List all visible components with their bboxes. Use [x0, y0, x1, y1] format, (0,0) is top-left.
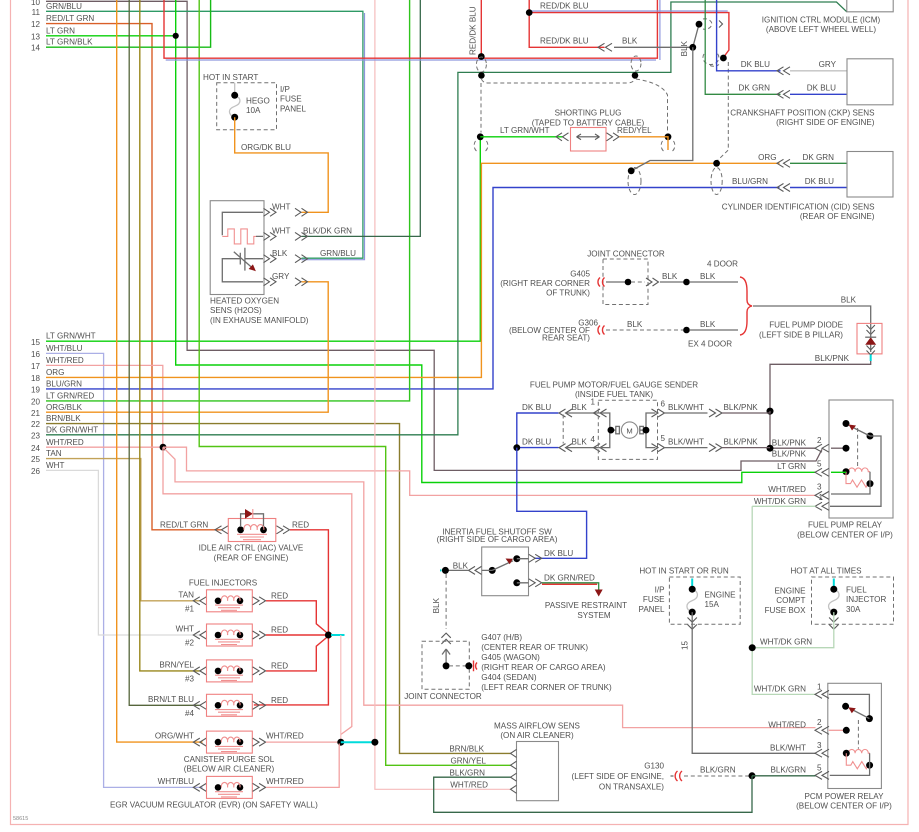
wire DK BLU sender row4 [517, 447, 559, 449]
svg-text:GRN/BLU: GRN/BLU [320, 249, 356, 258]
svg-text:BLK: BLK [453, 561, 469, 570]
svg-text:COMPT: COMPT [776, 596, 805, 605]
connector arrows CID row1 [777, 159, 790, 167]
svg-text:(LEFT SIDE OF ENGINE,: (LEFT SIDE OF ENGINE, [572, 772, 665, 781]
shorting plug internal jumper arrow [577, 134, 600, 140]
fuel pump relay internal arm to pin1 [830, 436, 881, 506]
svg-text:DK BLU: DK BLU [805, 177, 834, 186]
svg-text:WHT/RED: WHT/RED [46, 356, 84, 365]
wire ORG/WHT from top to canister purge solenoid [117, 0, 203, 742]
svg-text:14: 14 [31, 44, 41, 53]
joint connector internal arrow [442, 649, 450, 666]
svg-text:GRY: GRY [819, 60, 837, 69]
wire BLK from brace to fuel pump diode [753, 306, 871, 324]
svg-text:ON TRANSAXLE): ON TRANSAXLE) [599, 782, 664, 791]
wire WHT/RED EGR up to canister node [266, 744, 339, 788]
wire ORG/DK BLU from fuse to HEGO pin1 [235, 117, 329, 212]
svg-text:WHT/RED: WHT/RED [768, 485, 806, 494]
fuse ENGINE exit arrows [688, 618, 697, 630]
EGR vacuum regulator box [207, 776, 253, 798]
wire RED/DK BLU U-shaped run (red) [164, 0, 657, 58]
EGR coil [215, 784, 222, 791]
wire RED/DK BLU blue vertical of pair [659, 0, 661, 60]
injector 1 coil [215, 598, 222, 605]
svg-text:ORG: ORG [46, 368, 64, 377]
svg-text:3: 3 [817, 483, 822, 492]
EGR arrows right [253, 783, 266, 791]
svg-text:15: 15 [31, 338, 41, 347]
svg-text:PCM POWER RELAY: PCM POWER RELAY [804, 792, 884, 801]
svg-text:PASSIVE RESTRAINT: PASSIVE RESTRAINT [545, 601, 627, 610]
svg-text:WHT/DK GRN: WHT/DK GRN [754, 685, 806, 694]
wire GRY into CKP sensor [790, 70, 847, 72]
svg-text:RED/LT GRN: RED/LT GRN [160, 520, 208, 529]
svg-text:FUEL INJECTORS: FUEL INJECTORS [189, 579, 258, 588]
svg-text:FUEL PUMP DIODE: FUEL PUMP DIODE [769, 321, 843, 330]
svg-text:2: 2 [817, 436, 822, 445]
fuel injector 1 box [207, 590, 253, 612]
svg-text:20: 20 [31, 398, 41, 407]
fuel pump relay coil [846, 468, 870, 472]
svg-text:(REAR OF ENGINE): (REAR OF ENGINE) [800, 212, 875, 221]
fuel pump relay pin2 stub [831, 447, 846, 449]
node BLK bend [689, 44, 696, 51]
wire BLK/PNK row10 to fuel pump relay pin 2 [46, 1, 822, 470]
svg-text:RED: RED [271, 661, 288, 670]
splice lead cyan [331, 634, 345, 636]
HEGO pin1 arrows and label WHT [264, 208, 277, 216]
harness ellipse above right node [631, 56, 641, 71]
svg-text:BLK/WHT: BLK/WHT [770, 743, 806, 752]
svg-text:#2: #2 [185, 639, 195, 648]
svg-text:BLK/PNK: BLK/PNK [724, 437, 759, 446]
PCM relay pin2 stub [829, 729, 847, 731]
sender row6 arrows and labels [652, 409, 665, 417]
HEGO sensor diagonal arrow [234, 252, 254, 269]
svg-text:#4: #4 [185, 709, 195, 718]
svg-text:(CENTER REAR OF TRUNK): (CENTER REAR OF TRUNK) [481, 643, 588, 652]
svg-text:G130: G130 [644, 762, 664, 771]
wire DK BLU from ICM to CKP connector [717, 0, 781, 71]
svg-text:BLK/WHT: BLK/WHT [668, 403, 704, 412]
wire DK BLU to inertia switch [517, 448, 587, 559]
dashed link down to CID harness [717, 62, 728, 161]
svg-text:SENS (H2OS): SENS (H2OS) [210, 306, 262, 315]
svg-text:BRN/LT BLU: BRN/LT BLU [148, 695, 194, 704]
node joint connector left [443, 662, 450, 669]
svg-text:FUSE: FUSE [280, 95, 302, 104]
PCM relay coil [846, 749, 870, 753]
IAC internal coil [237, 526, 244, 533]
wire BLK dashed from inertia down to joint connector [445, 574, 447, 629]
svg-text:11: 11 [32, 8, 41, 17]
svg-text:BLK/DK GRN: BLK/DK GRN [303, 227, 352, 236]
brace joining 4-door wires [740, 277, 752, 335]
injector 3 arrows left [193, 667, 206, 675]
svg-text:BLK/PNK: BLK/PNK [724, 403, 759, 412]
svg-text:RED: RED [271, 696, 288, 705]
wire WHT/RED branch to canister purge node [163, 447, 352, 734]
connector ring below shorting plug left node [474, 141, 488, 151]
wire BLK/GRN from G130 node to PCM relay pin5 [752, 775, 816, 777]
svg-text:BLK: BLK [572, 403, 588, 412]
wire DK GRN into CID sensor [790, 162, 847, 164]
svg-text:G407 (H/B): G407 (H/B) [481, 633, 522, 642]
idle air ctrl IAC valve box [228, 519, 275, 542]
svg-text:10: 10 [31, 0, 41, 7]
svg-text:GRN/YEL: GRN/YEL [450, 756, 486, 765]
HEGO pin2 arrows and labels [264, 232, 277, 240]
svg-text:12: 12 [31, 20, 41, 29]
svg-text:BLK: BLK [680, 40, 689, 56]
dashed link to right node [449, 665, 466, 667]
wire RED injector1 to splice [266, 601, 328, 634]
svg-text:BLK/GRN: BLK/GRN [770, 766, 806, 775]
diode symbol [870, 324, 872, 352]
svg-text:58615: 58615 [13, 816, 28, 822]
svg-text:(ABOVE LEFT WHEEL WELL): (ABOVE LEFT WHEEL WELL) [766, 25, 876, 34]
wire BLK/PNK diode to fuel pump relay pin2 [770, 361, 871, 448]
wire RED/DK BLU horizontal pair to ICM connector [529, 10, 728, 12]
svg-text:DK BLU: DK BLU [741, 60, 770, 69]
heated oxygen sensor H2OS box [210, 201, 264, 295]
svg-text:HEATED OXYGEN: HEATED OXYGEN [210, 296, 279, 305]
injector 1 arrows left [193, 597, 206, 605]
svg-text:WHT/BLU: WHT/BLU [46, 344, 83, 353]
fuel pump diode box [857, 323, 882, 354]
MAF pin arrows [511, 749, 517, 757]
svg-text:WHT/RED: WHT/RED [46, 438, 84, 447]
svg-text:26: 26 [31, 467, 41, 476]
fuel pump relay box [829, 400, 893, 518]
wire LT GRN/BLK row14 up to ignition coil [46, 0, 211, 47]
wire BRN/LT BLU from top to injector 4 [129, 0, 200, 705]
svg-text:WHT/RED: WHT/RED [768, 720, 806, 729]
wire DK GRN/WHT row23 to ignition ctrl module [46, 2, 847, 435]
svg-text:21: 21 [31, 409, 41, 418]
svg-text:LT GRN/RED: LT GRN/RED [46, 392, 94, 401]
svg-text:WHT: WHT [176, 625, 194, 634]
svg-text:I/P: I/P [280, 85, 290, 94]
fuel pump relay coil right lead [831, 472, 870, 494]
wire WHT/RED canister to node [266, 741, 341, 743]
svg-text:BLK/GRN: BLK/GRN [449, 768, 485, 777]
wire BLK/PNK sender row5 to node [722, 447, 770, 449]
arrow chevrons above joint connector [441, 633, 450, 644]
svg-text:RED/LT GRN: RED/LT GRN [46, 14, 94, 23]
svg-text:1: 1 [817, 682, 822, 691]
svg-text:PANEL: PANEL [639, 605, 665, 614]
IAC diode on top [241, 514, 264, 526]
wire BRN/YEL from top to injector 3 [140, 0, 200, 671]
svg-text:17: 17 [31, 362, 41, 371]
svg-text:WHT/DK GRN: WHT/DK GRN [760, 638, 812, 647]
svg-text:DK BLU: DK BLU [522, 403, 551, 412]
node BLK/PNK at sender row6 [767, 408, 774, 415]
mass airflow sensor box [517, 742, 559, 801]
fuse FUEL INJECTOR 30A symbol [833, 579, 835, 589]
svg-text:ORG/WHT: ORG/WHT [155, 732, 194, 741]
svg-text:(IN EXHAUSE MANIFOLD): (IN EXHAUSE MANIFOLD) [210, 316, 309, 325]
injector 3 arrows right [253, 667, 266, 675]
injector 2 arrows left [193, 631, 206, 639]
wire RED/YEL from shorting plug [620, 137, 669, 150]
fuel injector 2 box [207, 624, 253, 646]
svg-text:GRY: GRY [272, 272, 290, 281]
inertia fuel shutoff switch box [482, 547, 529, 596]
wire BLK/DK GRN from top to HEGO pin2 [302, 0, 421, 236]
svg-text:EGR VACUUM REGULATOR (EVR) (ON: EGR VACUUM REGULATOR (EVR) (ON SAFETY WA… [110, 800, 318, 809]
svg-text:ORG/DK BLU: ORG/DK BLU [241, 143, 291, 152]
svg-text:(INSIDE FUEL TANK): (INSIDE FUEL TANK) [575, 390, 653, 399]
crankshaft position CKP sensor box [847, 59, 893, 105]
svg-text:BLK: BLK [700, 320, 716, 329]
svg-text:HOT IN START: HOT IN START [203, 73, 258, 82]
fuse HEGO 10A dashed box I/P fuse panel [217, 83, 277, 130]
fuel pump relay switch contact [843, 420, 850, 427]
svg-text:16: 16 [31, 350, 41, 359]
svg-text:5: 5 [817, 763, 822, 772]
inertia switch left arrows [469, 566, 482, 574]
wire BLK/GRN from MAF down to G130 node [434, 776, 752, 813]
svg-text:BRN/YEL: BRN/YEL [159, 660, 194, 669]
svg-text:BLK: BLK [662, 272, 678, 281]
svg-text:M: M [626, 426, 632, 435]
svg-text:I/P: I/P [655, 586, 665, 595]
wire RED/DK BLU from ignition coil vertical x=529 [529, 0, 604, 47]
svg-text:1: 1 [591, 398, 596, 407]
svg-text:BLK/PNK: BLK/PNK [815, 354, 850, 363]
wire RED/LT GRN row12 to IAC valve [46, 24, 222, 530]
wire GRN/BLU blue line of pair [302, 13, 365, 260]
svg-text:5: 5 [817, 460, 822, 469]
fuse ENGINE 15A dashed box [669, 577, 740, 624]
injector 3 coil [215, 668, 222, 675]
connector arrows right of shorting plug [607, 133, 620, 141]
node canister splice left [337, 739, 344, 746]
svg-text:WHT/BLU: WHT/BLU [158, 777, 195, 786]
svg-text:18: 18 [31, 374, 41, 383]
ground G405 connector symbol [598, 278, 605, 287]
svg-text:(LEFT SIDE B PILLAR): (LEFT SIDE B PILLAR) [759, 330, 843, 339]
connector arrows CID row2 [777, 184, 790, 192]
svg-text:BLK: BLK [622, 37, 638, 46]
wire WHT/RED row17 [46, 365, 163, 447]
node on ORG wire at CID harness [713, 160, 720, 167]
canister arrows right [253, 738, 266, 746]
ignition ctrl module ICM box [847, 0, 893, 12]
svg-text:HOT AT ALL TIMES: HOT AT ALL TIMES [790, 567, 862, 576]
injector 4 arrows left [193, 701, 206, 709]
injector 4 arrows right [253, 701, 266, 709]
IAC valve arrows right [277, 526, 290, 534]
svg-text:10A: 10A [246, 106, 261, 115]
svg-text:WHT: WHT [272, 203, 290, 212]
ground G130 symbol [675, 771, 682, 781]
wire BLK from ignition module down to CID harness [631, 47, 693, 171]
fuse HEGO 10A symbol [229, 83, 240, 117]
IAC valve arrows left [215, 526, 228, 534]
svg-text:#3: #3 [185, 674, 195, 683]
fuel pump motor internal wiring [598, 413, 655, 448]
wire BLK/GRN dashed from G130 [684, 775, 750, 777]
sender row4 arrows and BLK label [559, 444, 572, 452]
node BLK/GRN [749, 772, 756, 779]
fuse 30A exit arrows [829, 618, 838, 630]
svg-text:G404 (SEDAN): G404 (SEDAN) [481, 673, 537, 682]
wire LT GRN/WHT to shorting plug [480, 136, 563, 138]
inertia pin2 arrows right [529, 579, 542, 587]
harness ellipse left on ORG/BLU pair [628, 168, 641, 195]
svg-text:WHT/DK GRN: WHT/DK GRN [754, 497, 806, 506]
svg-text:13: 13 [31, 32, 41, 41]
svg-text:BRN/BLK: BRN/BLK [46, 414, 81, 423]
wire DK BLU sender row1 [517, 413, 559, 448]
wire labels rows 10-14 [46, 2, 94, 47]
wire BLK from connector to ICM area [614, 24, 699, 47]
svg-text:(RIGHT SIDE OF ENGINE): (RIGHT SIDE OF ENGINE) [776, 118, 875, 127]
wire GRN/YEL from top to MAF sensor [199, 0, 511, 765]
svg-text:OF TRUNK): OF TRUNK) [546, 289, 590, 298]
svg-text:15A: 15A [705, 600, 720, 609]
connector arrows CKP row1 [777, 67, 790, 75]
fuel pump relay pin arrows [815, 444, 829, 452]
svg-text:FUEL: FUEL [846, 586, 867, 595]
wire BLU/GRN row19 to CID sensor [46, 188, 780, 389]
wire WHT/RED row24 stub [46, 446, 163, 448]
HEGO pin4 arrows and label GRY [264, 278, 277, 286]
wire labels rows 15-26 [46, 332, 98, 470]
connector arrows left of shorting plug [556, 133, 569, 141]
svg-text:BLK/PNK: BLK/PNK [772, 438, 807, 447]
fuel pump relay dashed actuator link [857, 428, 859, 467]
joint connector dashed box G407 [422, 641, 469, 689]
svg-text:DK GRN: DK GRN [739, 84, 771, 93]
svg-text:#1: #1 [185, 604, 195, 613]
svg-text:FUEL PUMP RELAY: FUEL PUMP RELAY [808, 521, 883, 530]
svg-text:(BELOW AIR CLEANER): (BELOW AIR CLEANER) [184, 765, 275, 774]
svg-text:(BELOW CENTER OF I/P): (BELOW CENTER OF I/P) [796, 802, 892, 811]
svg-text:RED: RED [271, 626, 288, 635]
svg-text:WHT: WHT [272, 227, 290, 236]
motor M circle [621, 422, 637, 438]
connector arrows second row [598, 43, 612, 51]
svg-text:INJECTOR: INJECTOR [846, 595, 886, 604]
wire DK GRN from ICM to CKP connector [705, 0, 780, 94]
HEGO internal sensor element [222, 248, 263, 282]
svg-text:23: 23 [31, 431, 41, 440]
svg-text:RED/YEL: RED/YEL [617, 126, 652, 135]
joint connector G405 dashed box [603, 259, 648, 305]
wire WHT/RED splice drop to canister node [340, 635, 342, 742]
svg-text:ORG/BLK: ORG/BLK [46, 403, 83, 412]
fuse ENGINE 15A symbol [691, 579, 693, 589]
svg-text:30A: 30A [846, 605, 861, 614]
svg-text:FUSE: FUSE [643, 595, 665, 604]
wire DK GRN/RED to passive restraint [542, 583, 599, 590]
svg-text:(RIGHT REAR CORNER: (RIGHT REAR CORNER [500, 279, 590, 288]
svg-text:RED/DK BLU: RED/DK BLU [469, 6, 478, 55]
wire RED/DK BLU U-shaped run (blue line of pair) [166, 59, 656, 61]
svg-text:LT GRN: LT GRN [777, 462, 806, 471]
HEGO pin3 arrows and labels [264, 255, 277, 263]
node RED/DK BLU junction on U-run [478, 53, 485, 60]
svg-text:25: 25 [31, 455, 41, 464]
svg-text:BLK: BLK [572, 437, 588, 446]
svg-text:WHT/RED: WHT/RED [450, 780, 488, 789]
svg-text:PANEL: PANEL [280, 104, 306, 113]
svg-text:HEGO: HEGO [246, 96, 270, 105]
svg-text:22: 22 [31, 420, 41, 429]
PCM relay pin arrows [815, 690, 829, 698]
svg-text:6: 6 [661, 400, 666, 409]
svg-text:3: 3 [817, 741, 822, 750]
canister arrows left [193, 738, 206, 746]
svg-text:BLK/WHT: BLK/WHT [668, 437, 704, 446]
svg-text:ENGINE: ENGINE [705, 591, 737, 600]
PCM power relay box [828, 683, 882, 788]
fuse FUEL INJECTOR 30A dashed box [812, 577, 894, 624]
sender row1 arrows and BLK label [559, 409, 572, 417]
node joint connector right [465, 662, 472, 669]
svg-text:2: 2 [817, 718, 822, 727]
wire WHT/RED branch to fuel pump relay pin 3 [163, 447, 816, 495]
svg-text:SHORTING PLUG: SHORTING PLUG [555, 109, 622, 118]
harness ellipse above left node [476, 57, 486, 72]
svg-text:LT GRN/BLK: LT GRN/BLK [46, 38, 93, 47]
svg-text:4: 4 [591, 435, 596, 444]
svg-text:RED/DK BLU: RED/DK BLU [540, 37, 589, 46]
svg-text:RED: RED [292, 520, 309, 529]
svg-text:BRN/BLK: BRN/BLK [449, 744, 484, 753]
PCM relay resistor [846, 753, 870, 769]
wire GRN/BLU row11 to HEGO pin3 (green line of pair) [46, 11, 363, 258]
svg-text:DK BLU: DK BLU [522, 437, 551, 446]
svg-text:DK BLU: DK BLU [807, 84, 836, 93]
injector 2 arrows right [253, 631, 266, 639]
svg-text:JOINT CONNECTOR: JOINT CONNECTOR [404, 692, 482, 701]
svg-text:TAN: TAN [46, 449, 62, 458]
ground G306 connector symbol [598, 326, 605, 335]
svg-text:IDLE AIR CTRL (IAC) VALVE: IDLE AIR CTRL (IAC) VALVE [199, 544, 304, 553]
svg-text:LT GRN/WHT: LT GRN/WHT [46, 332, 96, 341]
svg-text:CANISTER PURGE SOL: CANISTER PURGE SOL [184, 755, 275, 764]
pin numbers 15-26 [31, 338, 41, 476]
svg-text:MASS AIRFLOW SENS: MASS AIRFLOW SENS [494, 721, 581, 730]
wire WHT/RED branch to PCM power relay pin 2 [163, 447, 816, 727]
dashed harness outline above shorting plug [481, 79, 635, 83]
splice tick below diode [870, 355, 872, 362]
svg-text:BLK: BLK [627, 320, 643, 329]
cylinder identification CID sensor box [847, 152, 893, 198]
svg-text:WHT/RED: WHT/RED [266, 777, 304, 786]
node DK BLU junction [513, 444, 520, 451]
svg-text:BLU/GRN: BLU/GRN [46, 379, 82, 388]
wire BLK/WHT fuse 15 to PCM relay pin3 [692, 612, 815, 753]
svg-text:15: 15 [681, 641, 690, 651]
svg-text:BLK: BLK [432, 597, 441, 613]
fuel sender dashed box [598, 400, 657, 459]
svg-text:1: 1 [819, 493, 824, 502]
svg-text:BLK: BLK [700, 272, 716, 281]
node WHT/DK GRN junction [749, 644, 756, 651]
svg-text:G405 (WAGON): G405 (WAGON) [481, 653, 540, 662]
svg-text:DK GRN/WHT: DK GRN/WHT [46, 425, 98, 434]
HEGO heater element red square wave [222, 229, 256, 244]
fuel injector 3 box [207, 660, 253, 682]
svg-text:REAR SEAT): REAR SEAT) [542, 334, 590, 343]
node shorting plug right [665, 133, 672, 140]
